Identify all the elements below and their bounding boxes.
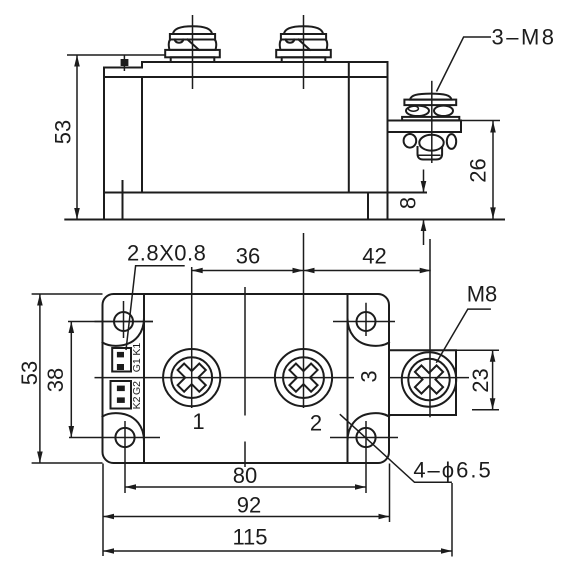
terminal screw T1 (side view) xyxy=(165,15,220,89)
plate center vertical centerline xyxy=(244,287,246,467)
label 4-phi6.5 with leader xyxy=(340,414,493,482)
svg-text:2: 2 xyxy=(310,411,322,436)
dimension 80 (plan bottom) xyxy=(125,463,366,490)
svg-text:K1: K1 xyxy=(131,343,143,356)
label 2.8X0.8 with leader xyxy=(126,241,206,351)
terminal 3 (M8) xyxy=(402,239,456,417)
svg-text:M8: M8 xyxy=(467,282,498,307)
terminal 1 xyxy=(163,267,220,408)
svg-text:8: 8 xyxy=(396,197,421,209)
svg-text:G1: G1 xyxy=(131,358,143,372)
dimension 36 (plan top) xyxy=(192,244,304,274)
svg-text:26: 26 xyxy=(466,158,491,182)
small tab on body top xyxy=(121,55,129,72)
label M8 with leader xyxy=(436,282,497,363)
svg-text:80: 80 xyxy=(233,463,257,488)
svg-text:K2: K2 xyxy=(131,396,143,409)
module body outline xyxy=(104,62,388,220)
corner hole top-right xyxy=(333,303,395,336)
dimension 115 (plan bottom) xyxy=(103,483,452,557)
dimension 53 (side view) xyxy=(51,55,167,220)
corner hole bottom-left xyxy=(115,421,134,493)
main horizontal centerline xyxy=(95,377,470,379)
dimension 8 (side view) xyxy=(396,170,427,246)
baseplate xyxy=(65,181,504,220)
svg-text:92: 92 xyxy=(237,493,261,518)
left strip line xyxy=(143,294,145,463)
dimension 42 (plan top) xyxy=(304,244,431,274)
right strip line xyxy=(347,294,349,463)
svg-text:36: 36 xyxy=(236,244,260,269)
dimension 53 (plan) xyxy=(17,294,103,463)
dimension 26 (side view) xyxy=(461,121,500,219)
dimension 23 (plan right) xyxy=(468,350,495,410)
M8 tab xyxy=(389,350,456,415)
svg-text:2.8X0.8: 2.8X0.8 xyxy=(127,241,206,266)
dimension 38 (plan) xyxy=(43,322,160,438)
corner pad top-left xyxy=(103,318,145,346)
dimension 92 (plan bottom) xyxy=(103,464,390,557)
corner pad top-right xyxy=(348,318,390,346)
corner pad bottom-right xyxy=(348,413,390,441)
connector block lower xyxy=(111,381,132,409)
svg-text:53: 53 xyxy=(17,361,42,385)
corner hole bottom-right xyxy=(330,421,398,493)
svg-text:42: 42 xyxy=(362,244,386,269)
svg-text:115: 115 xyxy=(232,525,267,550)
svg-text:3: 3 xyxy=(357,370,382,382)
plate outline xyxy=(103,294,390,463)
terminal screw T2 (side view) xyxy=(276,15,331,89)
terminal 2 xyxy=(275,233,332,408)
svg-text:23: 23 xyxy=(468,368,493,392)
svg-text:4–ϕ6.5: 4–ϕ6.5 xyxy=(413,458,492,483)
connector block upper xyxy=(112,348,131,372)
svg-text:53: 53 xyxy=(51,120,76,144)
connector pin labels xyxy=(131,343,143,410)
label 3-M8 with leader xyxy=(437,25,557,92)
svg-text:3–M8: 3–M8 xyxy=(491,25,556,50)
corner hole top-left xyxy=(95,301,154,338)
svg-text:38: 38 xyxy=(43,368,68,392)
corner pad bottom-left xyxy=(103,413,145,441)
svg-text:1: 1 xyxy=(192,409,204,434)
svg-text:G2: G2 xyxy=(131,381,143,395)
side M8 terminal bracket xyxy=(388,81,462,163)
